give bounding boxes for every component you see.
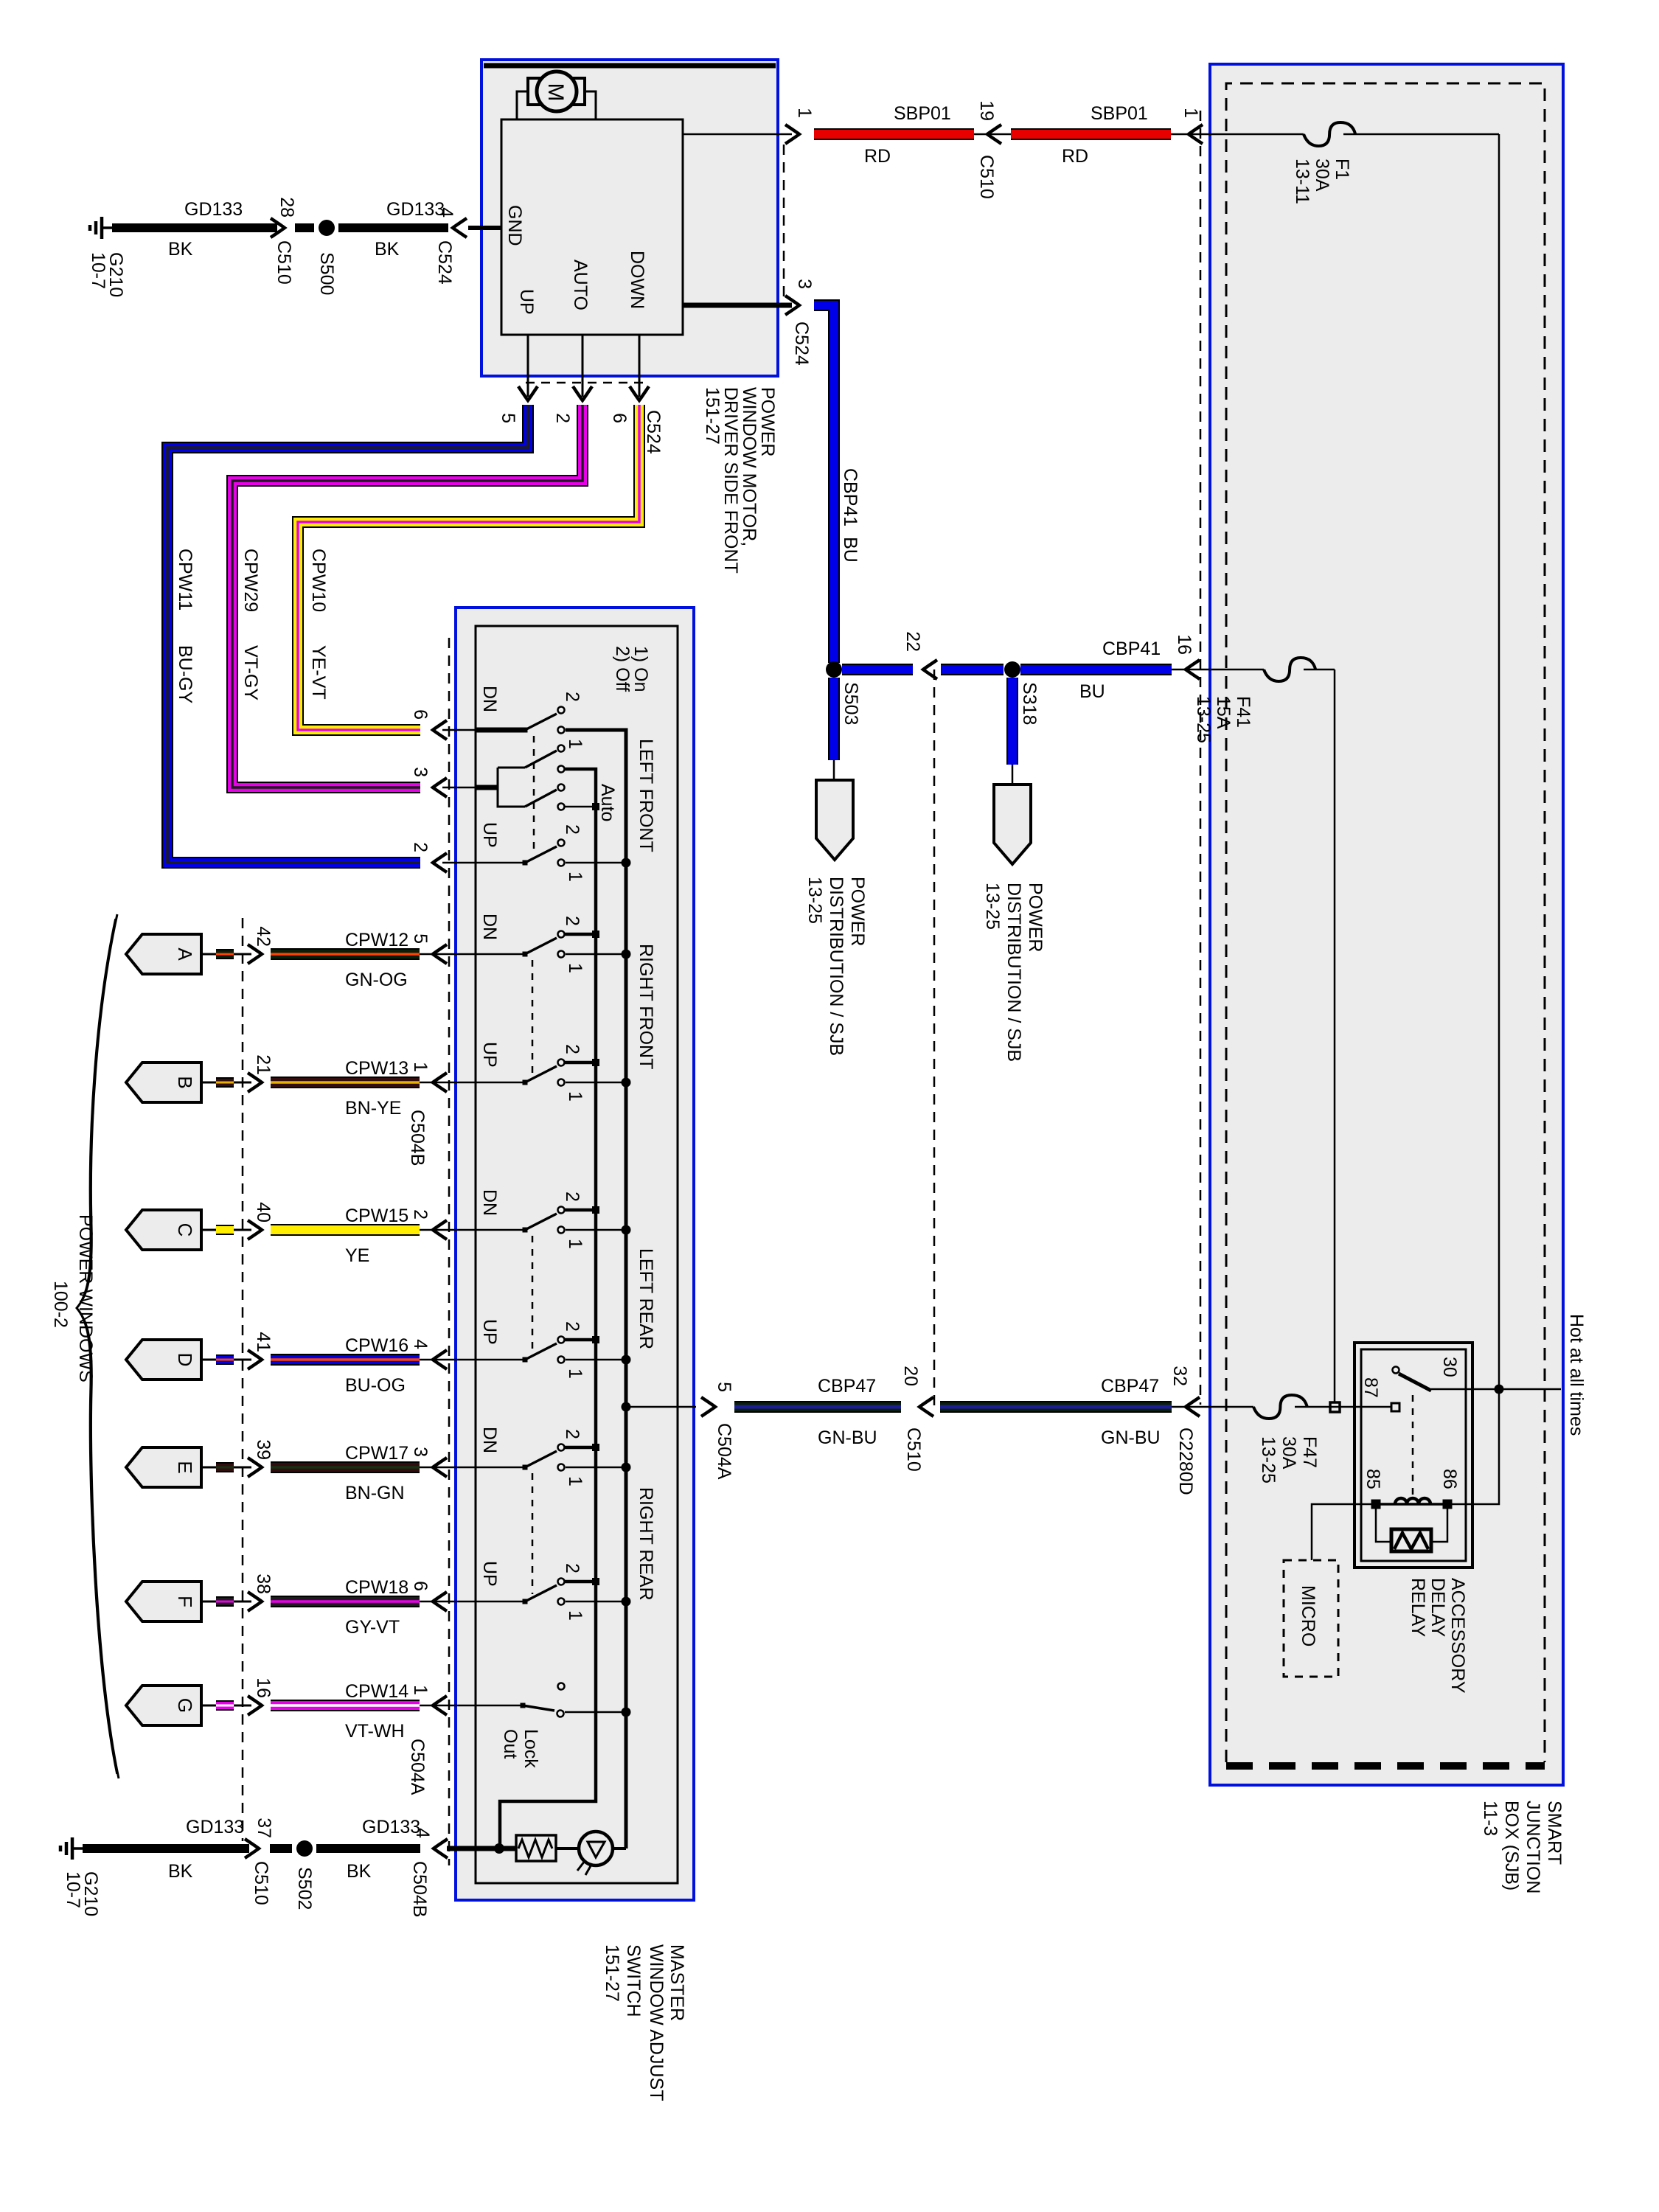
dashed connector line (power windows) [242,918,244,1841]
switch right front DN pole wire [476,953,525,956]
svg-text:WINDOW ADJUST: WINDOW ADJUST [646,1944,667,2101]
svg-text:C524: C524 [643,410,664,454]
switch box pin arrow 1 [433,1073,447,1092]
svg-text:Lock: Lock [521,1729,541,1768]
svg-text:B: B [174,1076,196,1088]
illumination resistor [516,1835,556,1861]
svg-text:28: 28 [276,197,297,218]
brace for power windows connectors [77,914,119,1778]
svg-text:2) Off: 2) Off [612,646,633,692]
svg-text:19: 19 [976,100,997,121]
lock out switch pole wire [476,1705,523,1707]
switch right front UP contact 2 [558,1060,565,1066]
SJB inner dashed border [1226,83,1545,1762]
junction relay30/F1 bus [1495,1385,1504,1394]
svg-text:11-3: 11-3 [1480,1801,1500,1836]
switch left rear UP pole wire [476,1359,525,1361]
svg-text:CPW12: CPW12 [345,930,408,950]
svg-text:UP: UP [479,1319,500,1345]
svg-text:1: 1 [410,1685,431,1695]
power window motor box, driver side front [481,60,778,376]
motor M circle [537,72,577,111]
wire into switch box [420,1359,476,1361]
switch left front UP contact 1 [558,860,565,866]
connector C504B pin 4 arrow [434,1839,448,1858]
connector C524 pin 4 arrow [453,218,467,237]
connector arrow D (power windows) [126,1340,201,1380]
relay coil terminal 85 [1371,1500,1381,1509]
svg-text:GND: GND [504,205,525,246]
svg-text:16: 16 [1174,634,1194,655]
svg-text:UP: UP [516,289,537,315]
wire CBP47 GN-BU segment 2 [940,1401,1172,1413]
svg-text:F1: F1 [1332,159,1352,180]
wire CPW16 BU-OG [271,1354,420,1366]
switch left front UP blade [523,860,528,866]
micro dashed box [1284,1560,1338,1677]
svg-text:POWER: POWER [1025,883,1046,952]
wire contact1 to feed bus [566,1229,622,1231]
svg-text:2: 2 [562,1192,582,1202]
connector C524 pin 3 arrow [785,296,799,315]
connector C510 pin 28 arrow [271,218,285,237]
svg-text:4: 4 [410,1339,431,1349]
svg-text:AUTO: AUTO [570,260,591,310]
splice S503 [826,661,842,678]
wire contact2 to ground bus [565,933,596,936]
svg-text:4: 4 [436,207,456,218]
svg-text:BU-GY: BU-GY [175,645,195,704]
svg-text:VT-GY: VT-GY [240,645,261,700]
svg-text:VT-WH: VT-WH [345,1721,405,1742]
wire into switch box [420,953,476,956]
wire CBP41 BU S503 to C510 [842,664,913,675]
svg-text:2: 2 [562,1429,582,1439]
power distribution arrow S503 [816,780,853,860]
svg-text:1: 1 [1180,108,1201,118]
svg-text:F41: F41 [1233,696,1253,728]
svg-text:S503: S503 [841,682,861,725]
svg-text:C524: C524 [791,321,812,366]
wire F1 bus down to relay 86 [1452,1389,1499,1504]
junction feed bus to pin 5 [622,1402,631,1412]
svg-text:S502: S502 [294,1867,315,1910]
dashed connector line C524 pins 1-3 [783,145,785,304]
wire contact1 to feed bus [566,1467,622,1469]
wire 85 to resistor [1376,1509,1391,1542]
switch left rear DN blade [523,1228,528,1233]
wire F47 to relay pin 87 [1295,1406,1391,1408]
fuse F1 30A [1304,122,1355,146]
connector C524 arrow (down) [630,386,649,400]
svg-text:30A: 30A [1312,159,1332,192]
svg-text:S500: S500 [316,252,337,295]
wire relay 30 to hot bus [1431,1388,1561,1391]
svg-text:1: 1 [565,1239,585,1249]
svg-text:15A: 15A [1213,696,1234,729]
switch right rear UP pole wire [476,1601,525,1603]
switch box pin arrow (C524 wire) [433,778,447,797]
svg-text:1: 1 [565,1368,585,1379]
smart junction box (SJB) outline [1210,64,1563,1785]
motor M symbol terminals [528,78,540,105]
wire from motor left terminal to block [517,91,528,119]
connector arrow E (power windows) [126,1447,201,1487]
dashed connector line C510 (vertical) [933,669,936,1407]
switch left front UP pole wire [476,862,525,864]
arrow out F [248,1592,262,1611]
wire stub to S500 [295,223,314,232]
svg-text:GN-OG: GN-OG [345,970,408,990]
svg-text:3: 3 [410,1447,431,1457]
wire link through C510 [974,133,1011,136]
junction square F41/F47 node [1330,1402,1340,1412]
switch right rear UP contact 2 [558,1579,565,1585]
wire CBP41 BU C510 to S318 [941,664,1004,675]
svg-text:5: 5 [714,1382,734,1392]
svg-text:2: 2 [562,916,582,926]
svg-text:SWITCH: SWITCH [623,1944,644,2017]
wire to switch pin 5 [626,1406,696,1408]
wire SJB pin16 to fuse F41 [1172,669,1264,671]
master switch inner rectangle [476,626,678,1883]
wire CPW18 GY-VT [271,1596,420,1607]
svg-text:1: 1 [565,963,585,973]
switch ground bus (vertical) [500,769,596,1848]
arrow out B [248,1073,262,1092]
wire CBP47 GN-BU segment 1 [734,1401,901,1413]
svg-text:C: C [174,1223,196,1237]
wire contact2 to ground bus [565,1338,596,1342]
svg-text:38: 38 [253,1573,274,1594]
svg-text:CPW17: CPW17 [345,1443,408,1464]
switch left rear UP blade [523,1357,528,1363]
wire SBP01 RD segment 2 [1011,128,1171,140]
svg-text:1: 1 [565,739,585,749]
lock out open contact [558,1683,565,1690]
wire into switch box [420,1705,476,1707]
relay contact 87 [1391,1403,1399,1411]
connector arrow C (power windows) [126,1210,201,1250]
connector arrow A (power windows) [126,934,201,974]
svg-text:GD133: GD133 [186,1817,244,1837]
svg-text:6: 6 [410,1581,431,1591]
svg-text:DN: DN [479,1189,500,1216]
accessory delay relay inner box [1361,1349,1466,1561]
svg-text:POWER: POWER [847,877,868,946]
svg-text:CPW18: CPW18 [345,1577,408,1598]
svg-text:S318: S318 [1019,682,1040,725]
svg-text:DN: DN [479,686,500,712]
svg-text:SMART: SMART [1544,1801,1565,1865]
wire lock out contact to feed bus [565,1711,622,1714]
switch left front DN pole wire [476,728,525,733]
switch box pin arrow 2 [433,1220,447,1239]
svg-text:CBP47: CBP47 [818,1376,876,1397]
svg-text:1) On: 1) On [630,646,651,692]
arrow out A [248,945,262,964]
wire F41 to relay pin 87 node [1304,669,1335,671]
svg-text:30: 30 [1439,1357,1460,1377]
switch left rear UP contact 2 [558,1337,565,1343]
svg-text:UP: UP [479,1042,500,1068]
power distribution arrow S318 [994,785,1031,864]
svg-text:6: 6 [609,413,630,423]
svg-text:E: E [174,1461,196,1473]
ground G210 (top) [102,226,112,229]
connector C524 arrow (down) [518,386,538,400]
svg-text:CPW13: CPW13 [345,1058,408,1079]
svg-text:RELAY: RELAY [1408,1578,1428,1637]
svg-text:C510: C510 [903,1427,924,1472]
svg-text:CPW16: CPW16 [345,1335,408,1356]
svg-text:86: 86 [1439,1469,1460,1489]
svg-text:CPW11: CPW11 [175,549,195,611]
switch left front DN contact 2 [558,707,565,714]
svg-text:3: 3 [794,279,815,289]
svg-text:42: 42 [253,926,274,947]
svg-text:1: 1 [410,1062,431,1072]
svg-text:D: D [174,1353,196,1367]
dashed connector line C2280D (SJB left) [1200,111,1202,1405]
svg-text:DN: DN [479,914,500,940]
svg-text:SBP01: SBP01 [894,103,951,124]
motor box top black edge [484,63,776,69]
svg-text:DISTRIBUTION / SJB: DISTRIBUTION / SJB [1004,883,1024,1062]
SJB pin 1 arrow [1189,125,1203,144]
switch box pin arrow 6 [433,1592,447,1611]
svg-text:BU-OG: BU-OG [345,1375,406,1396]
wire motor pin stub [527,335,529,397]
svg-text:6: 6 [410,709,431,720]
svg-text:1: 1 [565,1610,585,1621]
svg-text:YE: YE [345,1245,369,1266]
svg-text:Out: Out [500,1729,521,1759]
relay suppression resistor [1391,1529,1431,1551]
wire into switch box [442,729,476,731]
wire GD133 BK (S500 to C524) [338,223,448,232]
motor internal block (GND/UP/AUTO/DOWN) [501,119,683,335]
svg-text:RIGHT REAR: RIGHT REAR [636,1487,656,1601]
svg-text:41: 41 [253,1332,274,1352]
svg-text:A: A [174,947,196,961]
wire CBP41 BU S318 to SJB pin 16 [1020,664,1172,675]
switch right front DN contact 2 [558,931,565,938]
switch box pin arrow (C524 wire) [433,853,447,872]
mechanical link dashes (right rear) [532,1473,534,1594]
auto switch pole wire (pin 3) [476,785,498,790]
wire CPW17 BN-GN [271,1461,420,1473]
svg-text:BK: BK [347,1861,372,1882]
svg-text:G: G [174,1698,196,1713]
wire into switch box [420,1229,476,1231]
svg-text:10-7: 10-7 [88,252,108,289]
auto switch lower contact [558,804,565,810]
svg-text:SBP01: SBP01 [1091,103,1148,124]
svg-text:C510: C510 [274,240,294,285]
svg-text:100-2: 100-2 [50,1281,71,1328]
switch right rear DN pole wire [476,1467,525,1469]
switch right front UP contact 1 [558,1079,565,1086]
svg-text:CPW14: CPW14 [345,1681,408,1702]
SJB pin 16 arrow [1186,660,1200,679]
wire into switch box [420,1601,476,1603]
wire CPW17 stub [216,1462,234,1472]
svg-text:MASTER: MASTER [667,1944,687,2021]
wire SBP01 RD segment 1 [814,128,974,140]
svg-text:BU: BU [1079,681,1105,702]
svg-text:13-25: 13-25 [1193,696,1214,743]
svg-text:C2280D: C2280D [1175,1427,1196,1495]
svg-text:YE-VT: YE-VT [308,645,329,700]
arrow out E [248,1458,262,1477]
dashed connector line C524 pins 5-2-6 [526,382,649,384]
svg-text:C510: C510 [976,155,997,199]
mechanical link dashes (left front) [533,736,535,855]
relay coil terminal 86 [1443,1500,1453,1509]
wire contact2 to ground bus [565,1580,596,1584]
relay actuation dashed link [1412,1395,1414,1497]
svg-text:DELAY: DELAY [1427,1578,1448,1637]
wire motor pin 3 (DOWN feed) [683,303,792,308]
switch right front UP blade [523,1080,528,1085]
svg-text:2: 2 [562,824,582,835]
svg-text:F47: F47 [1299,1436,1320,1468]
wire CPW11 BU-GY (motor UP to switch pin 2) [167,405,528,863]
svg-text:10-7: 10-7 [63,1871,83,1908]
wire pin32 to fuse F47 [1172,1406,1253,1408]
wire S318 stub down [1006,678,1018,765]
SJB inner dashed border bottom (heavy) [1226,1762,1545,1770]
svg-text:13-25: 13-25 [804,877,825,924]
svg-text:5: 5 [410,933,431,944]
svg-text:151-27: 151-27 [602,1944,622,2002]
SJB internal bus from F1 down to relay [1498,134,1500,1389]
wire stub from C [201,1229,216,1231]
auto switch upper blade [525,751,557,768]
wire stub from F [201,1601,216,1603]
connector C510 pin 19 arrow [987,125,1001,144]
wire motor pin stub [582,335,584,397]
svg-text:BK: BK [375,239,400,260]
svg-text:POWER: POWER [757,387,778,456]
wire into motor GND pin [468,226,501,230]
wire motor pin 1 to connector [683,133,792,136]
wire GD133 BK (S502 to C504B) [316,1844,420,1853]
svg-text:GY-VT: GY-VT [345,1617,400,1638]
wire into switch box [420,1467,476,1469]
svg-text:C504B: C504B [407,1110,428,1166]
svg-text:M: M [543,83,568,102]
auto switch upper contact [558,766,565,773]
svg-text:1: 1 [565,1476,585,1486]
svg-text:1: 1 [794,108,815,118]
svg-text:UP: UP [479,1561,500,1587]
svg-text:30A: 30A [1279,1436,1299,1470]
svg-text:DN: DN [479,1427,500,1453]
mechanical link dashes (left rear) [532,1236,534,1352]
svg-text:ACCESSORY: ACCESSORY [1447,1578,1468,1694]
svg-text:CPW15: CPW15 [345,1206,408,1226]
wire contact2 to ground bus [565,1061,596,1065]
svg-text:2: 2 [562,1044,582,1054]
wire stub from E [201,1467,216,1469]
svg-text:13-25: 13-25 [1258,1436,1279,1484]
svg-text:22: 22 [902,631,923,652]
svg-text:13-11: 13-11 [1292,159,1312,204]
wire GD133 BK (ground to C510, bottom) [83,1844,249,1853]
svg-text:CPW10: CPW10 [308,549,329,612]
splice S500 [319,220,335,236]
lock out closed contact [557,1711,564,1717]
switch box pin arrow (C524 wire) [433,720,447,740]
switch right front DN blade [523,952,528,957]
wire CPW16 stub [216,1354,234,1365]
connector pin 1 arrow (motor side) [785,125,799,144]
ground G210 (bottom) [72,1847,83,1850]
wire from motor right terminal to block [585,91,596,119]
junction ground bus to pin4 wire [494,1843,504,1854]
wire lamp to feed bus [613,1847,626,1850]
switch left rear DN pole wire [476,1229,525,1231]
connector C524 arrow (down) [573,386,592,400]
svg-text:C524: C524 [434,240,455,285]
connector arrow F (power windows) [126,1582,201,1621]
svg-text:C504A: C504A [407,1739,428,1795]
wire contact1 to feed bus [566,1601,622,1603]
svg-text:2: 2 [562,692,582,702]
wire stub from D [201,1359,216,1361]
switch box pin arrow 4 [433,1350,447,1369]
svg-text:BN-YE: BN-YE [345,1098,401,1119]
arrow out G [248,1696,262,1715]
connector C510 pin 20 arrow [919,1397,933,1416]
accessory delay relay outer box [1354,1343,1472,1568]
wire auto upper contact to ground bus [565,768,596,771]
switch left front DN blade [523,728,528,733]
wire stub from B [201,1082,216,1084]
wire contact1 to feed bus [566,953,622,956]
wire CPW18 stub [216,1596,234,1607]
connector arrow B (power windows) [126,1062,201,1102]
wire CPW29 VT-GY (motor AUTO to switch pin 3) [232,405,582,787]
svg-text:BN-GN: BN-GN [345,1483,405,1503]
svg-text:C504B: C504B [409,1861,430,1917]
svg-text:LEFT REAR: LEFT REAR [636,1248,656,1349]
svg-text:F: F [174,1596,196,1607]
svg-text:2: 2 [562,1563,582,1573]
wire GD133 BK (ground to C510) [112,223,277,232]
wire contact1 to feed bus [566,1359,622,1361]
svg-text:85: 85 [1363,1469,1383,1489]
svg-text:1: 1 [565,872,585,882]
connector C510 pin 22 arrow [923,660,937,679]
wire CPW15 stub [216,1225,234,1235]
svg-text:3: 3 [410,767,431,777]
svg-text:16: 16 [253,1677,274,1698]
master window adjust switch box [456,608,694,1900]
svg-text:BK: BK [168,1861,193,1882]
wire F1 to internal bus [1343,133,1499,136]
svg-text:RIGHT FRONT: RIGHT FRONT [636,944,656,1069]
fuse F41 15A [1264,658,1315,681]
switch box pin arrow 3 [433,1458,447,1477]
connector C510 pin 37 arrow [245,1839,259,1858]
arrow out C [248,1220,262,1239]
wire between coil terminals [1376,1503,1447,1506]
SJB pin 32 arrow [1186,1397,1200,1416]
wire motor pin stub [639,335,641,397]
